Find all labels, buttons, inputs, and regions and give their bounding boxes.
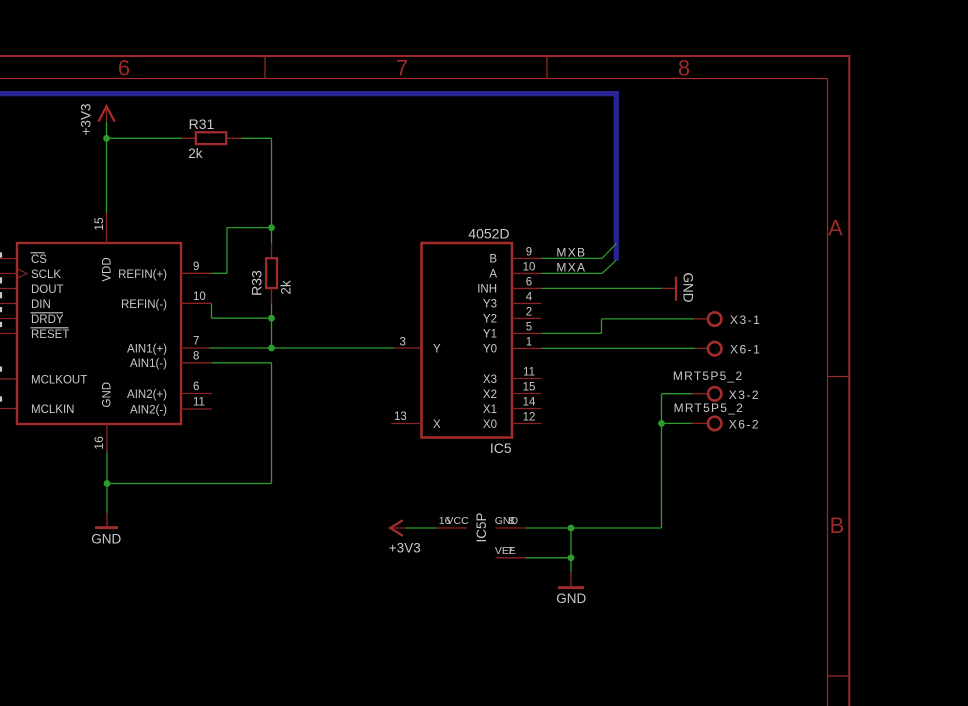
svg-text:RESET: RESET [31, 329, 69, 341]
svg-text:+3V3: +3V3 [389, 541, 421, 556]
svg-text:15: 15 [523, 382, 536, 394]
svg-text:8: 8 [678, 56, 690, 81]
svg-text:GND: GND [102, 382, 114, 408]
svg-text:INH: INH [477, 284, 497, 296]
svg-text:+3V3: +3V3 [79, 104, 94, 136]
svg-text:2: 2 [526, 306, 532, 318]
svg-text:8: 8 [509, 515, 515, 527]
svg-text:IC5: IC5 [490, 440, 512, 456]
svg-text:VDD: VDD [102, 257, 114, 281]
svg-text:6: 6 [526, 276, 532, 288]
svg-text:8: 8 [193, 350, 199, 362]
svg-text:AIN1(+): AIN1(+) [127, 343, 167, 355]
svg-text:10: 10 [193, 291, 206, 303]
svg-text:MXB: MXB [556, 245, 586, 259]
svg-text:MCLKIN: MCLKIN [31, 404, 74, 416]
svg-text:AIN1(-): AIN1(-) [130, 358, 167, 370]
svg-text:X: X [433, 419, 441, 431]
svg-text:GND: GND [91, 531, 121, 546]
svg-text:X0: X0 [483, 419, 497, 431]
svg-text:A: A [489, 269, 497, 281]
svg-text:CS: CS [31, 254, 47, 266]
svg-text:GND: GND [556, 591, 586, 606]
svg-text:12: 12 [523, 412, 536, 424]
svg-text:9: 9 [193, 261, 199, 273]
svg-text:6: 6 [118, 56, 130, 81]
svg-text:X3: X3 [483, 374, 497, 386]
svg-text:X3-1: X3-1 [730, 313, 761, 327]
svg-text:GND: GND [681, 273, 696, 303]
svg-text:X2: X2 [483, 389, 497, 401]
svg-text:AIN2(-): AIN2(-) [130, 404, 167, 416]
svg-text:9: 9 [526, 246, 532, 258]
svg-text:4052D: 4052D [468, 225, 509, 241]
svg-text:VCC: VCC [447, 515, 470, 527]
svg-text:7: 7 [508, 545, 514, 557]
svg-text:R33: R33 [248, 270, 264, 296]
svg-text:X6-1: X6-1 [730, 342, 761, 356]
svg-text:DOUT: DOUT [31, 284, 64, 296]
svg-text:2k: 2k [188, 146, 203, 161]
svg-text:B: B [489, 254, 497, 266]
svg-text:Y: Y [433, 344, 441, 356]
svg-text:7: 7 [193, 336, 199, 348]
svg-text:11: 11 [523, 367, 535, 379]
svg-text:3: 3 [400, 336, 406, 348]
svg-text:15: 15 [92, 217, 106, 231]
svg-text:10: 10 [523, 261, 536, 273]
svg-text:MCLKOUT: MCLKOUT [31, 374, 87, 386]
svg-text:GND: GND [495, 515, 519, 527]
svg-text:DRDY: DRDY [31, 314, 64, 326]
svg-text:6: 6 [193, 381, 199, 393]
svg-text:MXA: MXA [556, 261, 586, 275]
svg-text:14: 14 [523, 397, 536, 409]
svg-text:IC5P: IC5P [474, 512, 489, 542]
svg-text:1: 1 [526, 336, 532, 348]
svg-text:DIN: DIN [31, 299, 51, 311]
svg-text:Y0: Y0 [483, 344, 497, 356]
svg-text:2k: 2k [278, 280, 293, 295]
svg-text:R31: R31 [189, 116, 215, 132]
svg-text:4: 4 [526, 291, 533, 303]
svg-text:REFIN(-): REFIN(-) [121, 299, 167, 311]
svg-text:Y2: Y2 [483, 314, 497, 326]
svg-text:11: 11 [193, 397, 205, 409]
svg-text:Y1: Y1 [483, 329, 497, 341]
svg-text:A: A [828, 215, 843, 240]
svg-text:5: 5 [526, 321, 532, 333]
svg-text:X1: X1 [483, 404, 497, 416]
svg-text:7: 7 [396, 56, 408, 81]
svg-text:MRT5P5_2: MRT5P5_2 [674, 401, 744, 415]
svg-text:REFIN(+): REFIN(+) [118, 269, 167, 281]
svg-text:MRT5P5_2: MRT5P5_2 [673, 369, 743, 383]
svg-text:B: B [830, 513, 845, 538]
svg-text:X6-2: X6-2 [729, 417, 760, 431]
svg-text:Y3: Y3 [483, 299, 497, 311]
svg-text:AIN2(+): AIN2(+) [127, 389, 167, 401]
svg-text:SCLK: SCLK [31, 269, 61, 281]
svg-text:16: 16 [92, 436, 106, 450]
svg-text:X3-2: X3-2 [729, 388, 760, 402]
svg-text:13: 13 [394, 411, 407, 423]
